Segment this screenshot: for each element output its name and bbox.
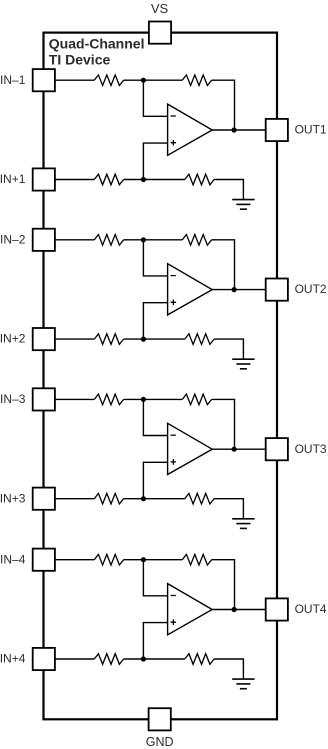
wire IN-3 pin to input resistor (56, 398, 95, 400)
svg-text:TI Device: TI Device (49, 52, 111, 68)
pin OUT4 (266, 598, 288, 620)
junction dot (inverting node, channel 2) (141, 237, 146, 242)
ground symbol (channel 4) (232, 679, 254, 689)
op-amp minus sign (171, 115, 176, 117)
wire input resistor to inverting node (124, 559, 144, 561)
wire input resistor to non-inverting node (124, 498, 144, 500)
wire IN-2 pin to input resistor (56, 239, 95, 241)
junction dot (output / feedback, channel 1) (232, 127, 237, 132)
wire feedback resistor to output node (corner) (212, 560, 235, 610)
ground symbol (channel 3) (232, 519, 254, 529)
wire inverting node down to op-amp - input (143, 240, 167, 276)
op-amp minus sign (171, 434, 176, 436)
wire inverting node to feedback resistor (143, 398, 182, 400)
junction dot (non-inverting node, channel 1) (141, 177, 146, 182)
op-amp plus sign (171, 140, 177, 146)
svg-text:IN–3: IN–3 (0, 392, 26, 406)
svg-text:IN+2: IN+2 (0, 332, 26, 346)
svg-text:OUT1: OUT1 (295, 123, 327, 137)
svg-text:IN+3: IN+3 (0, 491, 26, 505)
svg-text:IN–1: IN–1 (0, 73, 26, 87)
svg-text:IN–4: IN–4 (0, 552, 26, 566)
wire feedback resistor to output node (corner) (212, 80, 235, 130)
wire IN+1 pin to input resistor (56, 179, 95, 181)
pin IN+3 (33, 488, 55, 510)
wire ground resistor to ground symbol (214, 659, 243, 679)
pin IN-4 (33, 549, 55, 571)
op-amp (channel 4) (168, 584, 213, 635)
resistor (IN+1 input) (94, 174, 123, 185)
pin OUT3 (266, 438, 288, 460)
resistor (IN-1 input) (94, 75, 123, 86)
junction dot (output / feedback, channel 3) (232, 447, 237, 452)
wire inverting node to feedback resistor (143, 559, 182, 561)
svg-text:OUT4: OUT4 (295, 602, 327, 616)
svg-text:OUT2: OUT2 (295, 282, 327, 296)
svg-text:IN+4: IN+4 (0, 652, 26, 666)
wire inverting node down to op-amp - input (143, 399, 167, 435)
pin VS (149, 22, 171, 44)
wire inverting node down to op-amp - input (143, 560, 167, 596)
wire IN+2 pin to input resistor (56, 338, 95, 340)
op-amp plus sign (171, 619, 177, 625)
resistor (feedback, channel 2) (182, 235, 211, 246)
junction dot (non-inverting node, channel 3) (141, 496, 146, 501)
wire op-amp output to OUT4 pin (212, 609, 265, 611)
svg-text:IN–2: IN–2 (0, 232, 26, 246)
resistor (IN+3 input) (94, 493, 123, 504)
wire input resistor to non-inverting node (124, 338, 144, 340)
wire feedback resistor to output node (corner) (212, 240, 235, 290)
wire inverting node to feedback resistor (143, 239, 182, 241)
junction dot (inverting node, channel 4) (141, 557, 146, 562)
wire ground resistor to ground symbol (214, 339, 243, 359)
resistor (non-inverting to ground, channel 2) (185, 334, 214, 345)
wire ground resistor to ground symbol (214, 180, 243, 200)
wire feedback resistor to output node (corner) (212, 399, 235, 449)
resistor (feedback, channel 3) (182, 394, 211, 405)
wire IN+3 pin to input resistor (56, 498, 95, 500)
pin GND (149, 708, 171, 730)
channel 4 (56, 554, 266, 688)
pin IN+4 (33, 648, 55, 670)
wire inverting node down to op-amp - input (143, 80, 167, 116)
resistor (non-inverting to ground, channel 4) (185, 654, 214, 665)
channel 1 (56, 75, 266, 209)
op-amp (channel 3) (168, 423, 213, 474)
junction dot (non-inverting node, channel 2) (141, 337, 146, 342)
resistor (IN+2 input) (94, 334, 123, 345)
op-amp plus sign (171, 459, 177, 465)
wire input resistor to non-inverting node (124, 658, 144, 660)
channel 2 (56, 235, 266, 369)
svg-text:Quad-Channel: Quad-Channel (49, 35, 145, 51)
pin IN+2 (33, 328, 55, 350)
wire IN+4 pin to input resistor (56, 658, 95, 660)
svg-text:VS: VS (151, 1, 169, 16)
svg-text:IN+1: IN+1 (0, 172, 26, 186)
op-amp (channel 1) (168, 104, 213, 155)
resistor (feedback, channel 4) (182, 554, 211, 565)
wire op-amp output to OUT1 pin (212, 129, 265, 131)
wire input resistor to inverting node (124, 79, 144, 81)
wire input resistor to non-inverting node (124, 179, 144, 181)
svg-text:GND: GND (146, 735, 174, 749)
junction dot (output / feedback, channel 2) (232, 287, 237, 292)
wire non-inverting node to ground resistor (143, 179, 184, 181)
wire IN-4 pin to input resistor (56, 559, 95, 561)
resistor (non-inverting to ground, channel 1) (185, 174, 214, 185)
op-amp minus sign (171, 595, 176, 597)
wire non-inverting node up to op-amp + input (143, 143, 167, 179)
pin IN-1 (33, 69, 55, 91)
junction dot (non-inverting node, channel 4) (141, 656, 146, 661)
pin IN+1 (33, 168, 55, 190)
wire non-inverting node to ground resistor (143, 498, 184, 500)
resistor (IN-3 input) (94, 394, 123, 405)
resistor (IN+4 input) (94, 654, 123, 665)
junction dot (output / feedback, channel 4) (232, 607, 237, 612)
wire non-inverting node to ground resistor (143, 338, 184, 340)
wire IN-1 pin to input resistor (56, 79, 95, 81)
op-amp minus sign (171, 275, 176, 277)
op-amp plus sign (171, 300, 177, 306)
junction dot (inverting node, channel 3) (141, 397, 146, 402)
wire non-inverting node up to op-amp + input (143, 303, 167, 339)
resistor (IN-4 input) (94, 554, 123, 565)
resistor (feedback, channel 1) (182, 75, 211, 86)
wire input resistor to inverting node (124, 398, 144, 400)
wire ground resistor to ground symbol (214, 499, 243, 519)
wire op-amp output to OUT3 pin (212, 448, 265, 450)
wire inverting node to feedback resistor (143, 79, 182, 81)
resistor (IN-2 input) (94, 235, 123, 246)
channel 3 (56, 394, 266, 528)
ground symbol (channel 2) (232, 359, 254, 369)
wire op-amp output to OUT2 pin (212, 289, 265, 291)
ground symbol (channel 1) (232, 200, 254, 210)
op-amp (channel 2) (168, 264, 213, 315)
pin OUT1 (266, 119, 288, 141)
svg-text:OUT3: OUT3 (295, 442, 327, 456)
wire input resistor to inverting node (124, 239, 144, 241)
wire non-inverting node to ground resistor (143, 658, 184, 660)
resistor (non-inverting to ground, channel 3) (185, 493, 214, 504)
junction dot (inverting node, channel 1) (141, 78, 146, 83)
pin IN-3 (33, 388, 55, 410)
wire non-inverting node up to op-amp + input (143, 623, 167, 659)
pin OUT2 (266, 279, 288, 301)
device outline (Quad-Channel TI Device boundary) (44, 33, 278, 720)
wire non-inverting node up to op-amp + input (143, 462, 167, 498)
pin IN-2 (33, 229, 55, 251)
